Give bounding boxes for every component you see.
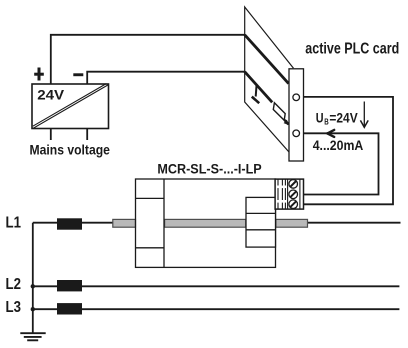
label UB=24V bbox=[316, 110, 358, 127]
terminal block body bbox=[275, 179, 303, 209]
transducer right column bbox=[246, 197, 276, 247]
svg-text:B: B bbox=[324, 117, 329, 127]
vertical bus to ground bbox=[32, 223, 34, 333]
svg-text:L3: L3 bbox=[6, 299, 21, 316]
svg-text:MCR-SL-S-...-I-LP: MCR-SL-S-...-I-LP bbox=[157, 161, 261, 177]
card contact branch bbox=[252, 85, 259, 104]
terminal cage lines bbox=[278, 180, 300, 209]
bracket hole bottom bbox=[293, 130, 300, 137]
wire − from supply to PLC card bbox=[87, 72, 245, 84]
terminal screw 1 bbox=[289, 180, 298, 189]
bracket hole top bbox=[293, 94, 300, 101]
terminal screw 2 bbox=[289, 190, 298, 199]
ground symbol bbox=[20, 333, 45, 340]
power supply box 24V bbox=[32, 84, 109, 129]
transducer inner divider bbox=[163, 179, 165, 267]
trace arrow to bracket bbox=[284, 120, 290, 125]
transducer left column dividers bbox=[136, 198, 165, 247]
PLC card outline bbox=[245, 7, 294, 152]
terminal screw 3 bbox=[289, 200, 298, 209]
left arrowhead on signal wire bbox=[327, 130, 334, 137]
svg-text:L1: L1 bbox=[6, 215, 21, 232]
resistor on card bbox=[273, 103, 285, 121]
power supply diagonal double line bbox=[33, 84, 109, 129]
junction dot L3 bbox=[31, 307, 35, 311]
PLC card trace 2 bbox=[245, 72, 273, 103]
fuse F2 bbox=[57, 280, 82, 291]
minus terminal bbox=[73, 73, 83, 76]
svg-text:U: U bbox=[316, 110, 324, 126]
supply loop wire: hole1 right, down, left to terminal bottom screw bbox=[304, 97, 394, 204]
signal wire: hole2 right, down, left to terminal middle screw bbox=[304, 133, 379, 194]
svg-text:Mains voltage: Mains voltage bbox=[30, 142, 110, 158]
PLC card trace 1 bbox=[245, 35, 289, 84]
svg-text:L2: L2 bbox=[6, 276, 21, 293]
junction dot L2 bbox=[31, 284, 35, 288]
svg-text:=24V: =24V bbox=[329, 110, 358, 126]
shielded cable segment middle bbox=[165, 219, 246, 227]
svg-text:24V: 24V bbox=[37, 88, 64, 103]
terminal cage separators bbox=[276, 186, 287, 203]
L1 wire thin segments bbox=[33, 222, 401, 224]
wire + from supply to PLC card bbox=[51, 35, 245, 84]
fuse F1 bbox=[57, 218, 82, 229]
fuse F3 bbox=[57, 303, 82, 314]
plus terminal bbox=[34, 68, 44, 81]
transducer outline bbox=[136, 179, 276, 267]
shielded cable segment left bbox=[113, 219, 136, 227]
down arrow (voltage) bbox=[360, 102, 368, 128]
shielded cable segment right bbox=[276, 219, 308, 227]
svg-text:active PLC card: active PLC card bbox=[305, 40, 399, 58]
L2 wire bbox=[33, 285, 400, 287]
card bracket bbox=[289, 69, 304, 161]
power supply pins bbox=[51, 129, 87, 141]
svg-text:4...20mA: 4...20mA bbox=[313, 137, 364, 153]
L3 wire bbox=[33, 308, 400, 310]
